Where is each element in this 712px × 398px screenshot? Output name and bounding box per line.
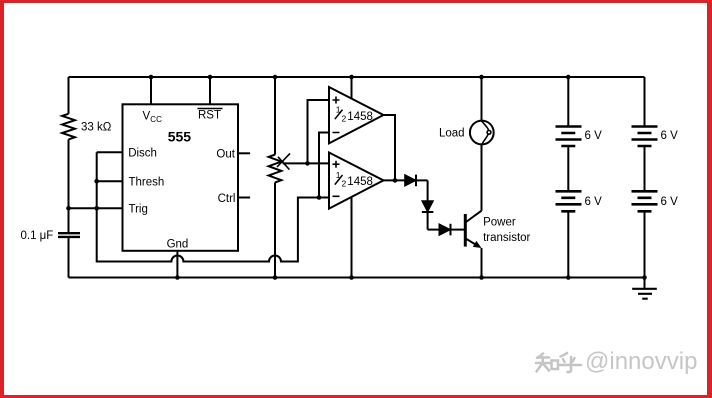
junction dot pot bottom rail — [273, 275, 278, 280]
svg-text:Disch: Disch — [128, 148, 157, 160]
junction dot Vcc top rail — [149, 75, 154, 80]
pin label Trig — [129, 204, 148, 216]
wire upper op-amp inverting input — [319, 133, 329, 198]
svg-text:555: 555 — [168, 129, 192, 145]
junction dot left battery bottom rail — [566, 275, 571, 280]
junction dot Gnd bottom rail — [175, 275, 180, 280]
svg-text:2: 2 — [342, 113, 347, 123]
svg-text:1458: 1458 — [347, 176, 373, 188]
junction dot emitter bottom rail — [479, 275, 484, 280]
svg-text:Thresh: Thresh — [129, 176, 165, 188]
wire left battery column top — [567, 77, 569, 127]
wire timing node to comparator inverting inputs with hops — [97, 152, 329, 261]
pin label Ctrl — [218, 193, 236, 205]
junction dot Trig left rail — [66, 206, 71, 211]
pin label Out — [216, 148, 235, 160]
battery B3 6V — [632, 127, 658, 147]
lamp DS1 load — [470, 121, 494, 145]
svg-text:Trig: Trig — [129, 204, 148, 216]
svg-text:V: V — [143, 111, 151, 123]
svg-text:Out: Out — [216, 148, 235, 160]
battery B4 6V — [632, 191, 658, 211]
wire emitter to bottom rail — [481, 248, 483, 278]
svg-text:Gnd: Gnd — [167, 239, 189, 251]
wire upper op-amp noninverting input — [308, 100, 330, 163]
wire Vcc pin to top rail — [150, 77, 152, 104]
wire left rail middle segment — [68, 139, 70, 232]
junction dot Thresh node — [94, 179, 99, 184]
pin label Gnd — [167, 239, 189, 251]
pin label Disch — [128, 148, 157, 160]
label B2 6 V — [585, 196, 603, 208]
junction dot op-amp outputs — [393, 178, 398, 183]
battery B1 6V — [556, 127, 582, 147]
wire Thresh pin — [97, 180, 123, 182]
potentiometer R2 wiper arrow — [277, 153, 290, 169]
svg-text:1458: 1458 — [347, 111, 373, 123]
wire 1458 V+ supply from top rail — [351, 77, 353, 99]
label 0.1 uF — [21, 230, 54, 242]
junction dot inverting inputs — [317, 195, 322, 200]
label 555 — [168, 129, 192, 145]
potentiometer R2 top wire — [274, 77, 276, 155]
junction dot pot top rail — [273, 75, 278, 80]
capacitor C1 0.1uF — [58, 233, 80, 237]
transistor Q1 power transistor — [465, 211, 481, 248]
junction dot left battery top rail — [566, 75, 571, 80]
svg-text:Load: Load — [439, 128, 465, 140]
junction dot ground bottom rail — [642, 275, 647, 280]
wire lamp to top rail — [481, 77, 483, 121]
svg-text:transistor: transistor — [483, 232, 530, 244]
wire upper op-amp output — [384, 115, 396, 180]
wire wiper to op-amp noninverting inputs — [283, 162, 329, 164]
IC U1 555 timer box — [123, 104, 239, 251]
wire Trig pin — [69, 207, 123, 209]
label Power transistor — [483, 217, 530, 244]
pin label Vcc — [143, 111, 163, 124]
label 33 kOhm — [81, 122, 112, 134]
svg-text:CC: CC — [150, 115, 162, 124]
junction dot RST top rail — [208, 75, 213, 80]
potentiometer R2 bottom wire — [274, 183, 276, 278]
potentiometer R2 — [269, 155, 282, 183]
diode D3 — [428, 224, 465, 236]
svg-text:6 V: 6 V — [585, 130, 603, 142]
wire 1458 V- supply to bottom rail — [351, 197, 353, 278]
junction dot Trig node — [94, 206, 99, 211]
wire left rail bottom segment — [68, 238, 70, 278]
svg-text:Ctrl: Ctrl — [218, 193, 236, 205]
junction dot 1458 supply top rail — [349, 75, 354, 80]
diode D2 — [422, 180, 434, 229]
wire left rail top segment — [68, 77, 70, 114]
wire collector to lamp — [481, 144, 483, 210]
wire Out pin stub — [238, 152, 250, 154]
wire Gnd pin to bottom rail — [176, 251, 178, 278]
junction dot wiper to upper noninverting — [305, 161, 310, 166]
svg-text:6 V: 6 V — [585, 196, 603, 208]
wire left battery column bottom — [567, 211, 569, 277]
watermark zhihu logo glyphs — [536, 353, 581, 372]
svg-text:6 V: 6 V — [661, 196, 679, 208]
svg-text:@innovvip: @innovvip — [585, 348, 697, 375]
junction dot lamp top rail — [479, 75, 484, 80]
label B3 6 V — [661, 130, 679, 142]
diode D1 — [405, 175, 428, 187]
pin label RST with overline — [198, 109, 223, 122]
junction dot 1458 bottom rail — [349, 275, 354, 280]
wire RST pin to top rail — [209, 77, 211, 104]
wire Disch pin — [97, 151, 123, 153]
svg-text:6 V: 6 V — [661, 130, 679, 142]
op-amp U2a 1/2 1458 — [329, 87, 384, 143]
ground symbol — [632, 278, 657, 299]
pin label Thresh — [129, 176, 165, 188]
wire between left batteries — [567, 146, 569, 191]
label Load — [439, 128, 465, 140]
label B4 6 V — [661, 196, 679, 208]
wire right battery column bottom — [644, 211, 646, 277]
wire between right batteries — [644, 146, 646, 191]
op-amp U2b 1/2 1458 — [329, 153, 384, 209]
battery B2 6V — [556, 191, 582, 211]
wire lower op-amp output — [384, 179, 405, 181]
wire right battery column top — [644, 77, 646, 127]
wire Ctrl pin stub — [238, 197, 250, 199]
svg-text:RST: RST — [198, 110, 221, 122]
wire bottom ground rail — [69, 277, 645, 279]
watermark handle text — [585, 348, 697, 375]
svg-text:2: 2 — [342, 179, 347, 189]
resistor R1 33 kOhm — [62, 114, 75, 140]
svg-text:0.1 μF: 0.1 μF — [21, 230, 54, 242]
label B1 6 V — [585, 130, 603, 142]
svg-text:33 kΩ: 33 kΩ — [81, 122, 112, 134]
svg-text:Power: Power — [483, 217, 516, 229]
wire top supply rail — [69, 76, 645, 78]
